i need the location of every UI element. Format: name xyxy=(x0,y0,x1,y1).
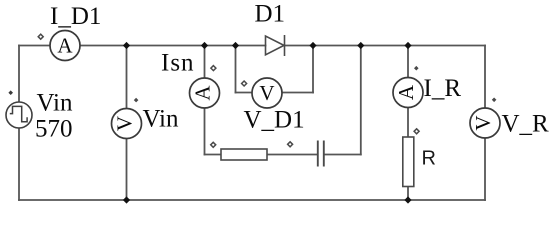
ammeter U I_D1 xyxy=(50,31,80,61)
svg-text:V: V xyxy=(471,115,495,130)
snubber resistor xyxy=(221,149,267,160)
junction top 3 xyxy=(232,42,239,49)
svg-text:V: V xyxy=(112,116,136,131)
wire snubber riser xyxy=(360,46,362,155)
voltage source Vin xyxy=(6,102,32,128)
svg-text:A: A xyxy=(57,33,73,57)
wire V_D1 loop left vertical xyxy=(235,46,237,93)
wire left side lower xyxy=(18,128,20,200)
voltmeter V_R xyxy=(470,108,500,138)
polarity marker voltmeter Vin xyxy=(134,98,139,103)
wire Isn upper xyxy=(204,46,206,79)
svg-text:V_D1: V_D1 xyxy=(244,107,305,134)
svg-text:V: V xyxy=(259,81,274,105)
wire left side upper xyxy=(18,46,20,103)
svg-text:R: R xyxy=(422,147,436,169)
junction top 5 xyxy=(357,42,364,49)
wire I_R upper xyxy=(407,46,409,79)
ammeter Isn xyxy=(190,78,220,108)
polarity marker snubber capacitor xyxy=(288,142,293,147)
source plus marker xyxy=(8,90,13,95)
wire V_D1 loop right vertical xyxy=(312,46,314,93)
junction top 6 xyxy=(404,42,411,49)
wire snubber right xyxy=(325,154,361,156)
wire snubber middle xyxy=(267,154,317,156)
wire Isn lower xyxy=(204,108,206,155)
polarity marker Isn xyxy=(211,66,216,71)
wire Vin voltmeter upper xyxy=(126,46,128,109)
wire I_R lower xyxy=(407,187,409,201)
svg-text:A: A xyxy=(190,85,214,101)
wire I_R middle xyxy=(407,107,409,137)
svg-text:570: 570 xyxy=(35,116,73,143)
wire top middle segment xyxy=(80,45,266,47)
junction bottom 1 xyxy=(123,196,130,203)
wire right side upper xyxy=(484,46,486,109)
polarity marker snubber resistor xyxy=(211,142,216,147)
svg-text:Isn: Isn xyxy=(161,50,195,77)
svg-text:A: A xyxy=(394,84,418,100)
capacitor snubber xyxy=(318,141,324,167)
wire bottom xyxy=(19,199,485,201)
wire V_D1 loop right horizontal xyxy=(282,92,314,94)
ammeter I_R xyxy=(393,78,423,108)
wire top right segment xyxy=(285,45,486,47)
junction top 4 xyxy=(309,42,316,49)
junction bottom 2 xyxy=(404,196,411,203)
svg-text:V_R: V_R xyxy=(502,111,550,138)
wire top left segment xyxy=(19,45,50,47)
wire V_D1 loop left horizontal xyxy=(236,92,253,94)
polarity marker I_R xyxy=(414,66,419,71)
voltmeter Vin xyxy=(112,109,142,139)
polarity marker V_D1 xyxy=(242,81,247,86)
junction top 2 xyxy=(201,42,208,49)
svg-text:I_D1: I_D1 xyxy=(50,3,101,30)
junction top 1 xyxy=(123,42,130,49)
resistor R xyxy=(403,137,414,187)
polarity marker R xyxy=(414,129,419,134)
wire Vin voltmeter lower xyxy=(126,139,128,201)
wire snubber left xyxy=(205,154,222,156)
polarity marker I_D1 xyxy=(38,34,43,39)
svg-text:Vin: Vin xyxy=(37,90,73,117)
voltmeter V_D1 xyxy=(252,78,282,108)
polarity marker V_R xyxy=(492,98,497,103)
svg-text:D1: D1 xyxy=(255,1,286,28)
wire right side lower xyxy=(484,138,486,200)
svg-text:I_R: I_R xyxy=(424,75,462,102)
svg-text:Vin: Vin xyxy=(143,106,179,133)
diode D1 xyxy=(266,35,285,56)
